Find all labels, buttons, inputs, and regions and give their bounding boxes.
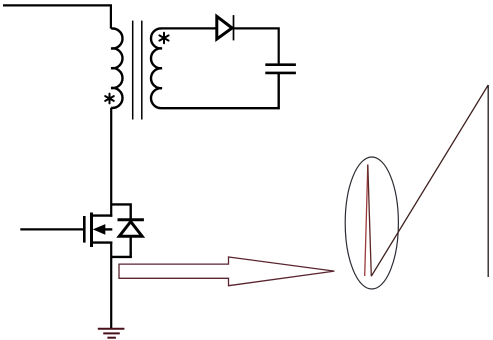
wire: secondary top to diode anode: [162, 27, 217, 29]
wire: diode cathode to capacitor top: [234, 28, 279, 64]
MOSFET Q1 gate plate: [83, 216, 86, 243]
waveform: leakage spike falling edge: [368, 165, 372, 277]
MOSFET Q1 drain lead: [92, 214, 113, 216]
MOSFET Q1 gate lead: [20, 228, 83, 230]
diode D1 cathode bar: [233, 15, 235, 40]
waveform: vertical axis line: [487, 85, 489, 277]
annotation: zoom ellipse: [345, 157, 398, 289]
wire: bottom branch back to source node: [111, 256, 132, 258]
wire: branch to body diode top: [111, 204, 131, 219]
MOSFET Q1 source lead: [92, 241, 113, 243]
body diode cathode bar: [118, 218, 144, 221]
body diode triangle: [119, 222, 142, 237]
ground symbol: [98, 329, 125, 338]
waveform: ramp: [371, 85, 488, 276]
wire: input rail from left edge to primary top: [3, 5, 111, 28]
diode D1 triangle: [217, 16, 232, 39]
capacitor C1 bottom plate: [265, 72, 296, 75]
wire: capacitor bottom back to secondary bottom: [162, 73, 279, 108]
transformer core: [132, 21, 134, 120]
MOSFET Q1 channel plate: [90, 213, 93, 248]
wire: primary bottom to MOSFET drain: [110, 108, 112, 217]
wire: source down to ground: [110, 242, 112, 329]
MOSFET Q1 bulk lead with arrow: [100, 228, 112, 230]
waveform: leakage spike rising edge: [365, 165, 368, 277]
primary polarity dot (asterisk): [105, 94, 114, 104]
capacitor C1 top plate: [265, 63, 296, 66]
transformer T1 secondary winding: [151, 28, 162, 108]
annotation: hollow block arrow pointing to waveform: [119, 257, 334, 286]
secondary polarity dot (asterisk): [159, 33, 168, 44]
transformer T1 primary winding: [111, 29, 122, 108]
wire: body diode anode to bottom branch: [129, 236, 131, 257]
